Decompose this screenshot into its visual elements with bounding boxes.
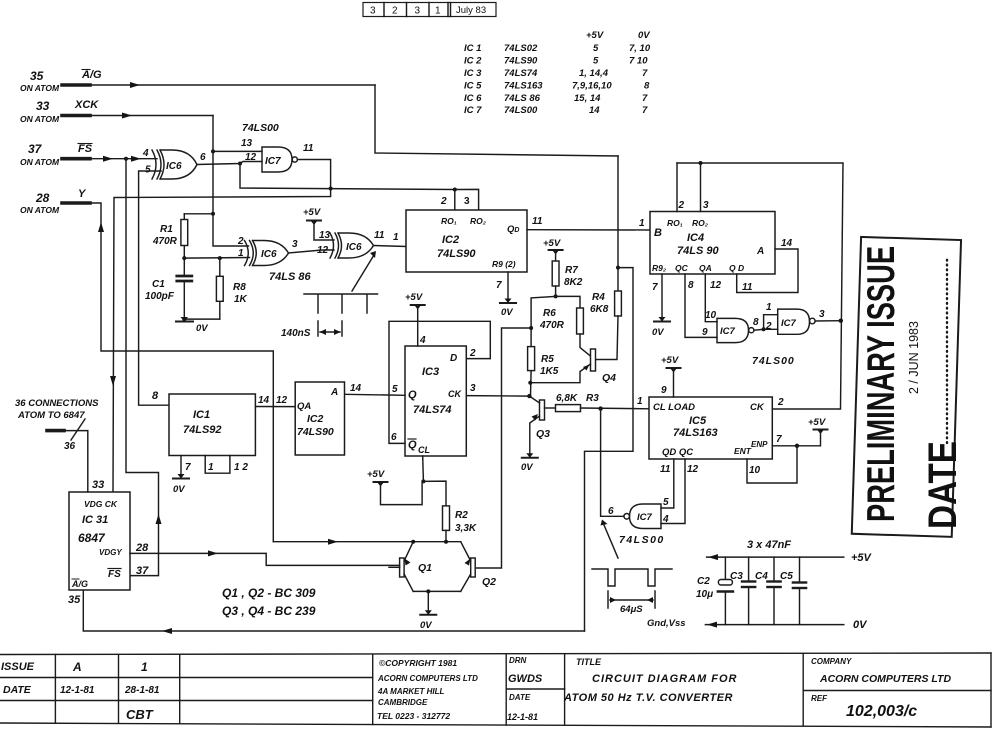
svg-text:ON ATOM: ON ATOM xyxy=(20,205,60,215)
wire IC5 ENP pin 7 to +5V xyxy=(772,431,820,446)
wire XOR2 out to XOR3 pin 12 xyxy=(289,250,335,253)
svg-text:ACORN COMPUTERS LTD: ACORN COMPUTERS LTD xyxy=(819,673,951,685)
svg-text:74LS00: 74LS00 xyxy=(242,122,279,134)
svg-text:4A MARKET HILL: 4A MARKET HILL xyxy=(377,687,444,696)
svg-text:RO₂: RO₂ xyxy=(470,216,487,226)
svg-text:C1: C1 xyxy=(152,279,165,290)
svg-text:ON ATOM: ON ATOM xyxy=(20,157,60,167)
capacitor C5 xyxy=(793,557,806,625)
svg-text:Q3: Q3 xyxy=(536,428,550,440)
IC2 74LS90 box xyxy=(406,210,527,272)
svg-text:IC4: IC4 xyxy=(687,232,704,244)
svg-text:A: A xyxy=(756,246,764,257)
svg-text:C2: C2 xyxy=(697,576,710,587)
svg-text:74LS 86: 74LS 86 xyxy=(504,93,541,104)
node junction A/G to R4 xyxy=(616,266,620,270)
svg-text:12: 12 xyxy=(687,464,699,475)
svg-text:ISSUE: ISSUE xyxy=(1,661,35,673)
wire FS down to jog to IC31 pin 37 xyxy=(126,159,159,576)
svg-text:Q: Q xyxy=(408,389,417,401)
svg-text:74LS92: 74LS92 xyxy=(183,424,222,436)
junction ground node C1 xyxy=(182,317,186,321)
junction NAND1 out / reset line xyxy=(329,187,333,191)
svg-text:3: 3 xyxy=(703,200,709,211)
svg-text:QC: QC xyxy=(675,263,689,273)
svg-text:3: 3 xyxy=(292,239,298,250)
arrow on A/G wire xyxy=(130,82,140,88)
overline on A of A/G xyxy=(82,69,90,71)
svg-text:8: 8 xyxy=(753,317,759,328)
svg-text:15, 14: 15, 14 xyxy=(574,93,601,104)
svg-text:IC3: IC3 xyxy=(422,366,439,378)
input 35 A/G labels xyxy=(20,69,102,93)
svg-text:CK: CK xyxy=(750,402,765,413)
junction RO1 riser xyxy=(453,188,457,192)
svg-text:2: 2 xyxy=(237,236,244,247)
svg-text:+5V: +5V xyxy=(405,292,423,303)
revision table top xyxy=(363,3,496,17)
svg-text:11: 11 xyxy=(742,282,753,293)
svg-text:74LS90: 74LS90 xyxy=(437,248,476,260)
svg-text:CIRCUIT DIAGRAM FOR: CIRCUIT DIAGRAM FOR xyxy=(592,673,738,685)
svg-text:IC 6: IC 6 xyxy=(464,93,482,104)
ground symbol C1/R8 xyxy=(176,317,193,322)
svg-text:3: 3 xyxy=(464,196,470,207)
junction Q1 collector xyxy=(411,540,415,544)
wire R7 node to R6 top xyxy=(556,296,580,308)
svg-text:PRELIMINARY ISSUE: PRELIMINARY ISSUE xyxy=(860,246,903,522)
svg-text:74LS90: 74LS90 xyxy=(504,56,538,67)
wire IC4 resets to CK vertical xyxy=(677,163,843,409)
wire XOR1 output to NAND1 pin 12 xyxy=(197,162,262,165)
resistor R5 1K5 xyxy=(528,347,535,397)
svg-text:DATE: DATE xyxy=(3,684,32,696)
svg-text:102,003/c: 102,003/c xyxy=(846,703,917,720)
svg-text:QD QC: QD QC xyxy=(662,447,693,458)
svg-text:4: 4 xyxy=(419,335,426,346)
wire IC1 pin14 to IC2b pin12 xyxy=(255,406,295,408)
svg-text:4: 4 xyxy=(662,514,669,525)
wire IC2 QD to IC4 pin1 B xyxy=(527,229,651,231)
svg-text:IC 5: IC 5 xyxy=(464,81,482,92)
arrow up on Y riser xyxy=(98,222,104,232)
transistor Q3 xyxy=(529,396,544,456)
arrow on VDGY wire xyxy=(208,550,218,556)
IC1 74LS92 box xyxy=(169,394,255,456)
svg-text:IC6: IC6 xyxy=(166,161,182,172)
junction NAND3 out on CK vertical xyxy=(839,319,843,323)
svg-text:12: 12 xyxy=(245,152,257,163)
svg-text:Q2: Q2 xyxy=(482,576,496,588)
svg-text:1: 1 xyxy=(435,6,441,17)
junction XCK to R1 top xyxy=(211,212,215,216)
input 28 Y labels xyxy=(20,188,87,215)
wire R7 node left to R5 xyxy=(531,296,556,346)
svg-text:74LS00: 74LS00 xyxy=(752,355,795,367)
IC5 74LS163 box xyxy=(649,397,772,459)
svg-text:0V: 0V xyxy=(501,307,513,318)
svg-text:10: 10 xyxy=(749,465,761,476)
svg-text:11: 11 xyxy=(532,216,543,227)
svg-text:6K8: 6K8 xyxy=(590,304,609,315)
svg-text:R9 (2): R9 (2) xyxy=(492,259,516,269)
svg-text:R2: R2 xyxy=(455,510,468,521)
svg-text:ON ATOM: ON ATOM xyxy=(20,114,60,124)
overline on IC31 FS xyxy=(108,568,121,570)
svg-text:3: 3 xyxy=(415,6,421,17)
svg-text:Q D: Q D xyxy=(729,263,744,273)
svg-text:1K5: 1K5 xyxy=(540,366,559,377)
svg-text:37: 37 xyxy=(136,565,149,577)
transistor Q1 xyxy=(389,542,413,592)
+5V rail decoupling xyxy=(707,556,844,558)
36 connections stub xyxy=(47,419,88,492)
arrows on FS wire xyxy=(103,156,113,162)
svg-text:2: 2 xyxy=(678,200,685,211)
svg-text:R3: R3 xyxy=(586,393,599,404)
bottom return wire to IC31 pin 35 xyxy=(83,590,584,631)
svg-text:R7: R7 xyxy=(565,265,578,276)
IC2 RO1 riser pin 2 xyxy=(454,190,456,211)
svg-text:IC6: IC6 xyxy=(261,249,277,260)
capacitor C3 xyxy=(742,557,755,625)
svg-text:VDGY: VDGY xyxy=(99,548,122,557)
svg-text:14: 14 xyxy=(258,395,270,406)
arrow on XCK wire xyxy=(122,113,132,119)
svg-text:RO₂: RO₂ xyxy=(692,218,709,228)
resistor R1 470R xyxy=(181,214,188,258)
svg-text:FS: FS xyxy=(78,143,93,155)
PRELIMINARY ISSUE stamp xyxy=(852,237,961,537)
svg-text:10μ: 10μ xyxy=(696,589,713,600)
overline on Qbar xyxy=(408,438,416,440)
svg-text:A: A xyxy=(330,387,338,398)
svg-text:1 2: 1 2 xyxy=(234,462,248,473)
transistor Q2 xyxy=(461,542,476,592)
wire IC3 Qbar to D feedback xyxy=(389,321,490,443)
svg-text:0V: 0V xyxy=(521,462,533,473)
svg-text:GWDS: GWDS xyxy=(508,673,543,685)
svg-text:9: 9 xyxy=(702,327,708,338)
NAND gate IC7 (clock regen) xyxy=(262,147,297,172)
svg-text:74LS163: 74LS163 xyxy=(504,81,543,92)
waveform sketch 140nS xyxy=(304,294,378,336)
svg-text:IC 7: IC 7 xyxy=(464,105,482,116)
svg-text:1: 1 xyxy=(637,396,643,407)
svg-text:CBT: CBT xyxy=(126,707,154,722)
svg-text:12: 12 xyxy=(276,395,288,406)
svg-text:8: 8 xyxy=(152,390,159,402)
junction NAND4 out riser on CL wire xyxy=(598,406,602,410)
svg-text:8K2: 8K2 xyxy=(564,277,583,288)
svg-text:28: 28 xyxy=(35,191,50,205)
junction FS branch down xyxy=(124,157,128,161)
ground symbol IC2 pin7 xyxy=(500,299,516,304)
IC2b 74LS90 box xyxy=(295,382,344,455)
resistor R3 6.8K horizontal xyxy=(545,405,650,412)
svg-text:7, 10: 7, 10 xyxy=(629,43,651,54)
+5V supply IC3 CL xyxy=(374,481,423,504)
wire IC3 CL pin1 bottom xyxy=(422,456,425,481)
svg-text:5: 5 xyxy=(593,43,599,54)
svg-text:COMPANY: COMPANY xyxy=(811,657,852,666)
svg-text:ENP: ENP xyxy=(751,440,768,449)
svg-text:DATE: DATE xyxy=(509,693,531,702)
svg-text:12: 12 xyxy=(710,280,722,291)
title block copyright cell xyxy=(377,658,478,721)
svg-text:28: 28 xyxy=(135,542,149,554)
junction R8 tap xyxy=(218,256,222,260)
svg-text:12-1-81: 12-1-81 xyxy=(507,712,538,722)
input 33 XCK labels xyxy=(20,99,99,124)
svg-text:74LS163: 74LS163 xyxy=(673,427,718,439)
svg-text:+5V: +5V xyxy=(367,469,385,480)
wire IC3 CK from Q3 collector node xyxy=(466,395,529,398)
svg-text:+5V: +5V xyxy=(586,30,604,41)
XOR gate IC6 (delay) xyxy=(245,241,289,266)
wire Y down left column xyxy=(90,203,273,542)
NAND gate IC7 (mirrored, reload) xyxy=(624,504,661,529)
svg-text:©COPYRIGHT 1981: ©COPYRIGHT 1981 xyxy=(379,658,457,668)
+5V supply R7 xyxy=(549,250,563,261)
svg-text:TITLE: TITLE xyxy=(576,657,602,667)
svg-text:QA: QA xyxy=(699,263,712,273)
svg-text:9: 9 xyxy=(661,385,667,396)
capacitor C1 100pF xyxy=(177,258,192,319)
arrow on +5V rail xyxy=(708,554,718,560)
svg-text:R6: R6 xyxy=(543,308,556,319)
wire A/G branch right and long down to left jog xyxy=(585,268,634,631)
capacitor C4 xyxy=(767,557,780,625)
junction divider to Q2 base line xyxy=(529,326,533,330)
svg-text:RO₁: RO₁ xyxy=(667,218,683,228)
svg-text:2 / JUN 1983: 2 / JUN 1983 xyxy=(907,321,921,394)
svg-text:3,3K: 3,3K xyxy=(455,523,477,534)
overline on FS xyxy=(78,143,92,145)
svg-text:64μS: 64μS xyxy=(620,604,643,615)
annotation arrow to NAND4 output xyxy=(601,520,619,559)
junction NAND3 input tie xyxy=(762,327,766,331)
svg-text:Q1: Q1 xyxy=(418,562,432,574)
+5V supply IC5 ENP xyxy=(814,430,828,435)
0V rail decoupling xyxy=(705,624,843,626)
XOR gate IC6 (FS/XCK) xyxy=(152,150,197,179)
svg-text:B: B xyxy=(654,227,662,239)
resistor R2 3,3K xyxy=(443,506,450,542)
IC4 74LS90 box xyxy=(650,212,775,275)
svg-text:7: 7 xyxy=(496,280,502,291)
svg-text:ACORN COMPUTERS LTD: ACORN COMPUTERS LTD xyxy=(377,674,478,683)
transistor Q4 xyxy=(530,349,595,383)
svg-text:2: 2 xyxy=(469,348,476,359)
revision table text xyxy=(370,5,486,17)
resistor R8 1K xyxy=(216,258,223,319)
wire divider node to Q2 base xyxy=(475,328,531,568)
svg-text:C3: C3 xyxy=(730,571,743,582)
ground symbol IC4 pin7 xyxy=(654,317,670,322)
svg-text:6,8K: 6,8K xyxy=(556,393,578,404)
svg-text:July 83: July 83 xyxy=(456,5,486,16)
wire XCK horizontal xyxy=(90,115,213,117)
svg-text:0V: 0V xyxy=(652,327,664,338)
wire NAND2 out to NAND3 inputs xyxy=(754,328,778,331)
wire IC2b QA pin14 to IC3 pin 5 xyxy=(345,394,406,395)
resistor R4 6K8 xyxy=(596,268,621,360)
title block frame xyxy=(0,653,991,727)
wire reset line to IC2 RO1 RO2 xyxy=(240,164,479,211)
svg-text:1: 1 xyxy=(393,232,399,243)
wire A/G down and right to x=618 xyxy=(375,85,618,156)
svg-text:5: 5 xyxy=(145,165,151,176)
svg-text:R5: R5 xyxy=(541,354,554,365)
svg-text:1: 1 xyxy=(208,462,214,473)
svg-text:470R: 470R xyxy=(539,320,565,331)
svg-text:470R: 470R xyxy=(152,236,178,247)
svg-text:12-1-81: 12-1-81 xyxy=(60,685,95,696)
wire XOR1 pin5 from IC1 pin 8 xyxy=(139,171,169,405)
svg-text:3 x 47nF: 3 x 47nF xyxy=(747,539,791,551)
svg-text:140nS: 140nS xyxy=(281,328,311,339)
svg-text:IC 2: IC 2 xyxy=(464,56,482,67)
svg-text:36: 36 xyxy=(64,441,76,452)
svg-text:7: 7 xyxy=(776,434,782,445)
svg-text:7: 7 xyxy=(642,105,648,116)
svg-text:1K: 1K xyxy=(234,294,248,305)
wire video out to Q1 Q2 collectors xyxy=(273,541,460,543)
resistor R7 8K2 xyxy=(552,261,559,296)
wire IC5 QD pin 11 to NAND4 pin 5 xyxy=(661,459,674,508)
title block DRN cell xyxy=(507,656,543,722)
svg-text:R9₂: R9₂ xyxy=(652,263,667,273)
svg-text:5: 5 xyxy=(392,384,398,395)
svg-text:11: 11 xyxy=(660,464,671,475)
svg-text:0V: 0V xyxy=(420,620,432,631)
svg-text:74LS00: 74LS00 xyxy=(504,105,538,116)
svg-text:6847: 6847 xyxy=(78,531,106,545)
svg-text:+5V: +5V xyxy=(303,207,321,218)
svg-text:12: 12 xyxy=(317,245,329,256)
title block TITLE cell xyxy=(563,657,738,704)
svg-text:A/G: A/G xyxy=(81,69,102,81)
svg-text:14: 14 xyxy=(350,383,362,394)
svg-text:RO₁: RO₁ xyxy=(441,216,457,226)
svg-text:3: 3 xyxy=(470,383,476,394)
svg-text:7 10: 7 10 xyxy=(629,56,648,67)
svg-text:5: 5 xyxy=(593,56,599,67)
junction XCK to NAND1 pin13 xyxy=(211,149,215,153)
wire XCK vertical down to XOR2 pin 2 xyxy=(213,116,249,247)
IC1 pin 7 wire xyxy=(180,456,182,478)
junction R2 bottom xyxy=(444,540,448,544)
svg-text:IC 1: IC 1 xyxy=(464,43,481,54)
wire XCK to NAND1 pin 13 xyxy=(213,150,262,152)
ground symbol Q3 emitter xyxy=(522,453,538,458)
svg-text:0V: 0V xyxy=(853,619,868,631)
svg-text:ATOM 50 Hz T.V. CONVERTER: ATOM 50 Hz T.V. CONVERTER xyxy=(563,692,733,704)
svg-text:Q1 , Q2 - BC 309: Q1 , Q2 - BC 309 xyxy=(222,586,316,600)
svg-text:+5V: +5V xyxy=(543,238,561,249)
svg-text:IC 3: IC 3 xyxy=(464,68,482,79)
svg-text:IC7: IC7 xyxy=(720,326,736,337)
svg-text:74LS 90: 74LS 90 xyxy=(677,245,719,257)
svg-text:2: 2 xyxy=(765,321,772,332)
wire emitter to ground xyxy=(427,591,429,613)
svg-text:FS: FS xyxy=(108,569,121,580)
svg-text:74LS74: 74LS74 xyxy=(504,68,538,79)
input 28 connector stub xyxy=(62,201,90,205)
svg-text:11: 11 xyxy=(303,143,314,154)
wire FS to XOR1 pin 4 xyxy=(90,158,157,160)
junction XOR1 out / feedback xyxy=(238,162,242,166)
junction R1 bottom node xyxy=(182,256,186,260)
svg-text:XCK: XCK xyxy=(74,99,99,111)
svg-text:6: 6 xyxy=(608,506,614,517)
svg-text:IC7: IC7 xyxy=(637,512,653,523)
svg-text:QA: QA xyxy=(297,401,311,412)
wire NAND1 output down to VDGCK riser xyxy=(113,160,331,492)
wire IC4 QA pin12 to NAND2 pin 10 xyxy=(705,274,717,322)
svg-text:36 CONNECTIONS: 36 CONNECTIONS xyxy=(15,398,99,409)
wire IC4 QD to A loop xyxy=(737,249,798,293)
IC4 top riser pin 2 xyxy=(676,163,678,212)
svg-text:R1: R1 xyxy=(160,224,173,235)
input 35 connector stub xyxy=(62,83,90,87)
svg-text:+5V: +5V xyxy=(661,355,679,366)
annotation arrow to XOR3 output xyxy=(352,251,376,291)
NAND gate IC7 (QA.QC) xyxy=(717,318,754,342)
svg-text:7: 7 xyxy=(642,93,648,104)
wire C1 to R8 bottom xyxy=(184,318,220,320)
svg-text:CL LOAD: CL LOAD xyxy=(653,402,695,413)
NAND gate IC7 (inverter) xyxy=(778,309,815,334)
svg-text:74LS90: 74LS90 xyxy=(297,426,334,438)
input 33 connector stub xyxy=(62,114,90,118)
svg-text:2: 2 xyxy=(777,397,784,408)
IC4 pin 7 ground wire xyxy=(661,274,663,320)
svg-text:REF: REF xyxy=(811,694,828,703)
svg-text:37: 37 xyxy=(28,142,43,156)
wire IC4 QC pin8 to NAND2 pin 9 xyxy=(685,274,717,337)
svg-text:DRN: DRN xyxy=(509,656,527,665)
svg-text:14: 14 xyxy=(781,238,793,249)
svg-text:2: 2 xyxy=(392,6,398,17)
title block COMPANY cell xyxy=(811,657,951,720)
svg-text:IC2: IC2 xyxy=(307,413,324,425)
wire CL node to R2 top xyxy=(423,481,446,506)
junction R7 bottom xyxy=(554,294,558,298)
svg-text:Q3 , Q4 - BC 239: Q3 , Q4 - BC 239 xyxy=(222,604,316,618)
wire A/G down x=618 to node xyxy=(617,156,619,268)
svg-text:0V: 0V xyxy=(173,484,185,495)
arrow right on collector wire xyxy=(328,539,338,545)
svg-text:IC7: IC7 xyxy=(265,156,281,167)
svg-text:CL: CL xyxy=(418,445,430,455)
wire R1 top to XCK line xyxy=(184,213,212,215)
svg-text:DATE: DATE xyxy=(920,441,965,529)
svg-text:100pF: 100pF xyxy=(145,291,175,302)
IC4 bottom pin labels R92 QC QA QD xyxy=(652,263,744,273)
svg-text:35: 35 xyxy=(30,69,44,83)
junction pin3 riser xyxy=(699,161,703,165)
arrow on 0V rail xyxy=(707,622,717,628)
input 37 connector stub xyxy=(62,157,90,161)
svg-text:74LS02: 74LS02 xyxy=(504,43,538,54)
junction CK node xyxy=(527,394,531,398)
svg-text:Q: Q xyxy=(408,439,417,451)
svg-text:74LS 86: 74LS 86 xyxy=(269,271,311,283)
IC31 6847 box xyxy=(69,492,130,590)
svg-text:IC2: IC2 xyxy=(442,234,459,246)
